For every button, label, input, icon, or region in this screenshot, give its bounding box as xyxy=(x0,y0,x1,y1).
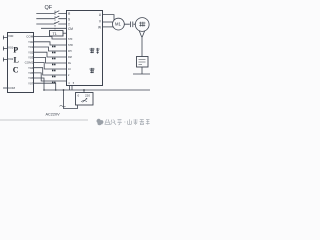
wire Y-out 5 xyxy=(34,57,67,63)
svg-text:AC220V: AC220V xyxy=(46,113,61,117)
svg-text:220: 220 xyxy=(85,94,90,98)
svg-text:Y05: Y05 xyxy=(28,71,34,75)
inverter U1 box xyxy=(67,11,103,86)
watermark logo xyxy=(97,119,104,126)
svg-text:Y06: Y06 xyxy=(28,76,34,80)
T1 wire right xyxy=(63,32,67,34)
PG box inner marks xyxy=(139,60,146,65)
PLC box xyxy=(8,33,34,93)
inverter inner label blob 1 (bian pin) xyxy=(90,48,100,54)
inverter terminal labels xyxy=(68,12,102,85)
svg-text:Y03: Y03 xyxy=(28,56,34,60)
wire Y-out 6 xyxy=(34,63,67,70)
wire inverter bottom terminal b xyxy=(71,86,73,91)
motor wire V xyxy=(103,21,113,23)
potentiometer symbol xyxy=(81,98,87,102)
breaker QF phase line L2 xyxy=(36,16,66,19)
breaker QF phase line L3 xyxy=(36,21,66,24)
shaft coupling xyxy=(124,22,135,28)
svg-text:X00: X00 xyxy=(8,34,14,38)
wire pot to bus xyxy=(83,90,85,93)
junction dots xyxy=(43,89,85,91)
wire Y-out 4 xyxy=(34,52,67,57)
svg-text:STF: STF xyxy=(68,38,73,41)
motor wire W xyxy=(103,26,114,28)
wire CM entry xyxy=(41,27,67,29)
wire Y-out 2 xyxy=(34,42,67,45)
svg-text:QF: QF xyxy=(45,5,53,11)
motor wire U xyxy=(103,15,115,20)
breaker QF phase line L1 xyxy=(36,11,66,14)
PG terminal box xyxy=(137,57,149,68)
svg-text:L: L xyxy=(14,56,19,65)
PLC terminal labels xyxy=(8,34,34,90)
svg-text:COM: COM xyxy=(26,35,34,39)
svg-text:Y00: Y00 xyxy=(28,40,34,44)
motor M1 circle xyxy=(113,18,125,30)
encoder glyph blob xyxy=(139,22,146,27)
svg-text:STR: STR xyxy=(68,44,73,47)
AC mark xyxy=(60,106,66,107)
svg-text:RM: RM xyxy=(68,56,72,59)
PLC letters xyxy=(13,46,19,75)
svg-text:Y02: Y02 xyxy=(28,50,34,54)
wire Y-out 10 to common xyxy=(34,83,56,90)
svg-text:X02: X02 xyxy=(8,57,14,61)
PLC input stub COM xyxy=(3,87,7,89)
wire Y-out 9 to bottom bus xyxy=(34,78,45,90)
pot scale labels 0 220 xyxy=(78,94,91,98)
svg-text:Y04: Y04 xyxy=(28,66,34,70)
PLC input stub X00 xyxy=(3,36,7,40)
wire Y-out 1 xyxy=(34,37,67,40)
svg-text:Y07: Y07 xyxy=(28,81,34,85)
potentiometer box 0-220 xyxy=(76,93,94,106)
divider line xyxy=(0,119,88,121)
wire long bottom bus xyxy=(44,89,150,91)
watermark text blobs xyxy=(105,119,150,125)
transformer T1 box xyxy=(50,31,64,37)
PLC input stub X01 xyxy=(3,47,7,51)
svg-text:Y01: Y01 xyxy=(28,45,34,49)
svg-text:T1: T1 xyxy=(53,32,57,36)
breaker QF linkage dashed xyxy=(54,11,56,31)
wire inverter bottom terminal a xyxy=(69,86,71,91)
PLC input stub X02 xyxy=(3,58,7,62)
wire pot bottom xyxy=(64,90,78,109)
svg-text:W: W xyxy=(98,25,101,29)
PG cable down xyxy=(133,67,150,74)
svg-text:S: S xyxy=(68,18,70,22)
wire tag blobs xyxy=(52,46,56,84)
svg-text:X01: X01 xyxy=(8,46,14,50)
svg-text:M1: M1 xyxy=(115,22,121,27)
wire Y-out 8 xyxy=(34,73,67,81)
svg-text:COM: COM xyxy=(8,86,16,90)
svg-text:P: P xyxy=(13,46,18,55)
inverter inner label blob 2 (qi) xyxy=(90,68,95,73)
breaker QF label xyxy=(45,5,53,11)
svg-text:CM: CM xyxy=(68,27,73,31)
encoder PG circle xyxy=(135,18,149,32)
svg-text:RH: RH xyxy=(68,50,72,53)
svg-text:COM1: COM1 xyxy=(25,61,34,65)
svg-text:C: C xyxy=(13,65,19,74)
wire Y-out 7 xyxy=(34,68,67,75)
encoder cable V xyxy=(139,31,144,57)
wire Y-out 3 xyxy=(34,47,67,51)
